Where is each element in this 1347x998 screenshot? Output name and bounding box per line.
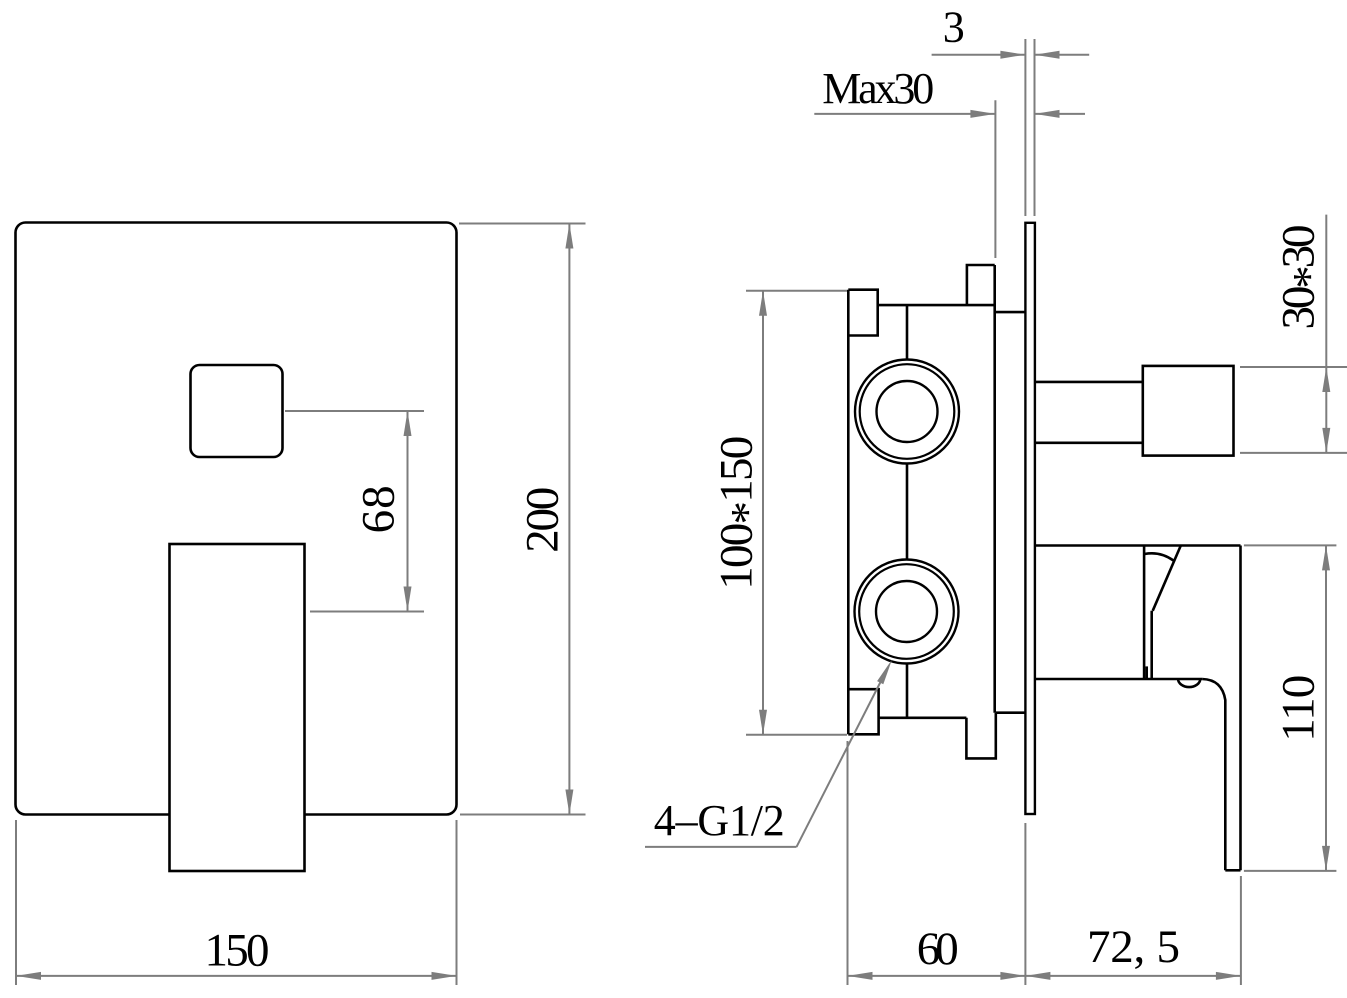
side view port centre line (906, 305, 909, 718)
svg-text:Max30: Max30 (822, 64, 934, 113)
dim 30*30 line (1325, 215, 1327, 453)
side view top-left lug (848, 290, 877, 336)
svg-text:3: 3 (943, 3, 965, 52)
side view upper port inner circle (877, 381, 938, 442)
side view upper port outer circle (855, 360, 959, 464)
side view lower port inner circle (876, 581, 937, 642)
dim 30*30 extension lines (1240, 366, 1347, 368)
side view handle fillet (1202, 679, 1225, 870)
arrowheads dim 200 (565, 224, 573, 249)
side view lower port second ring (859, 564, 954, 659)
side view handle front vertical (1150, 611, 1153, 679)
front view lever handle (170, 544, 305, 871)
side view outlet knob 30x30 (1143, 366, 1234, 456)
dim 60 and 72,5 line (848, 975, 1241, 977)
svg-text:72, 5: 72, 5 (1087, 921, 1180, 973)
arrowheads dim 30*30 (1322, 367, 1330, 392)
side view escutcheon bottom edge (1035, 678, 1203, 681)
dim 110 line (1325, 545, 1327, 871)
arrowheads dim 68 (404, 411, 412, 436)
svg-text:150: 150 (205, 925, 270, 977)
leader 4-G1/2 underline (645, 846, 797, 848)
svg-text:200: 200 (517, 487, 569, 553)
leader 4-G1/2 arrowhead (877, 660, 892, 685)
svg-text:4–G1/2: 4–G1/2 (654, 796, 785, 845)
side view outlet pipe top edge (1035, 381, 1143, 384)
dim 68 extension lines (285, 410, 424, 412)
side view body bottom edge (879, 716, 967, 719)
dim 3 line right part (1035, 54, 1090, 56)
side view outlet pipe bottom edge (1035, 441, 1143, 444)
svg-text:68: 68 (353, 485, 405, 533)
side view body left edge (847, 290, 850, 735)
dim 68 line (407, 411, 409, 612)
arrowheads dim 150 (16, 972, 41, 980)
dim Max30 line left part (814, 113, 995, 115)
side view escutcheon right edge (1143, 546, 1146, 680)
dim 200 extension lines (459, 223, 586, 225)
side view escutcheon step tick (1145, 666, 1148, 679)
side view screw dome (1178, 679, 1200, 687)
side view lower port outer circle (855, 560, 959, 664)
dim 100*150 line (762, 291, 764, 735)
side view handle bar bottom (1225, 869, 1240, 872)
side view neck bottom line (996, 711, 1026, 714)
dim 3 extension lines (1024, 39, 1026, 216)
side view neck top line (995, 311, 1026, 314)
dim 60 / 72,5 extension lines (847, 741, 849, 985)
arrowheads dim 72,5 (1025, 972, 1050, 980)
side view bottom-left lug (848, 689, 878, 734)
side view bottom-right lug (966, 713, 995, 759)
side view wall plate (1025, 223, 1035, 814)
side view handle bar right edge (1239, 546, 1242, 871)
front view diverter button (191, 365, 283, 457)
arrowheads dim Max30 (970, 110, 995, 118)
side view handle top edge (1035, 544, 1241, 547)
side view body right edge (993, 265, 996, 713)
side view body top edge (878, 304, 995, 307)
dim 3 line left part (932, 54, 1026, 56)
side view handle pivot arc (1145, 553, 1174, 560)
dim 110 extension lines (1244, 544, 1337, 546)
dim 100*150 extension lines (746, 290, 847, 292)
side view handle front diagonal (1153, 546, 1181, 611)
dim 150 line (16, 975, 457, 977)
dim Max30 line right part (1035, 113, 1086, 115)
svg-text:110: 110 (1273, 675, 1325, 742)
dim Max30 extension line (994, 100, 996, 258)
dim 150 extension lines (15, 820, 17, 985)
side view upper port second ring (860, 364, 955, 459)
arrowheads dim 100*150 (759, 291, 767, 316)
arrowheads dim 60 (848, 972, 873, 980)
arrowheads dim 110 (1322, 545, 1330, 570)
front view wall plate (16, 223, 457, 815)
leader 4-G1/2 diagonal (797, 681, 882, 847)
svg-text:60: 60 (917, 923, 959, 975)
side view top-right lug (967, 265, 995, 305)
arrowheads dim 3 (1000, 51, 1025, 59)
dim 200 line (568, 224, 570, 815)
